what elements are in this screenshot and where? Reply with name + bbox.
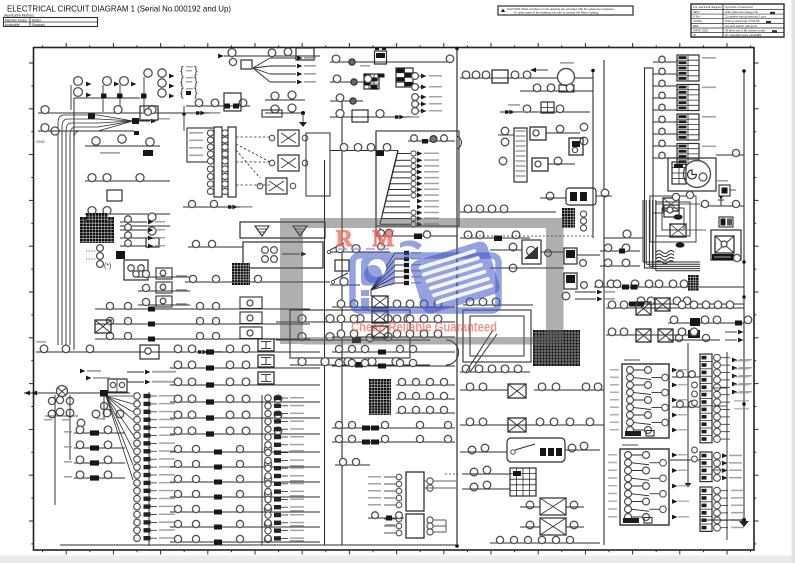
IC box 2 [406, 514, 424, 538]
row W1 [594, 286, 744, 288]
connector stack CD [700, 487, 712, 531]
row y282 [185, 281, 330, 283]
watermark document [409, 239, 502, 315]
labels CE [734, 360, 749, 362]
starter switch box [507, 438, 565, 462]
svg-text:For electrical diagram: For electrical diagram [693, 5, 722, 9]
rows BD [332, 427, 455, 429]
diode relay group [663, 198, 679, 211]
row y207 [183, 206, 240, 208]
svg-text:All lines are 0.85 unless note: All lines are 0.85 unless noted [725, 28, 765, 32]
X boxes BK [540, 498, 566, 515]
svg-text:ELECTRICAL CIRCUIT DIAGRAM 1 (: ELECTRICAL CIRCUIT DIAGRAM 1 (Serial No.… [7, 4, 231, 14]
connector block CN1 [80, 217, 114, 243]
right bus vertical [726, 352, 728, 540]
switch cluster 3 [148, 213, 156, 221]
fusible links [101, 94, 107, 99]
scan edge right [792, 0, 795, 563]
row Q [290, 364, 430, 366]
watermark emblem EL [361, 259, 395, 286]
connector V2a [719, 217, 733, 227]
connector group D [271, 92, 279, 100]
svg-text:W: standard color white/Blk: W: standard color white/Blk [725, 33, 762, 37]
svg-text:CODE: CODE [693, 19, 702, 23]
svg-text:Cheap Reliable Guaranteed: Cheap Reliable Guaranteed [351, 320, 497, 335]
svg-text:R M: R M [336, 226, 401, 251]
section divider wire 3 [375, 131, 377, 236]
terminal stack AF [261, 395, 263, 545]
svg-text:S.No: S.No [693, 15, 700, 19]
watermark logo frame [353, 256, 499, 311]
caution box [498, 6, 633, 15]
ignition hub [88, 113, 95, 119]
dashed row N [376, 235, 457, 237]
rows BJ [470, 468, 478, 476]
connector stack right [677, 55, 699, 81]
fuse box F-2 [620, 449, 669, 525]
speedometer gauge [668, 158, 716, 191]
rows BB [332, 351, 455, 353]
rows AE [170, 451, 320, 453]
svg-text:WIRE SIZE: WIRE SIZE [693, 28, 708, 32]
rows BC [396, 384, 455, 386]
row W4 [668, 322, 744, 324]
relay matrix P [290, 310, 410, 358]
connector block CN2 [364, 74, 379, 89]
fan to arrows [253, 58, 270, 68]
rows BA [332, 306, 455, 308]
stack side circles [692, 382, 698, 388]
row R2 [520, 90, 593, 92]
alternator terminal box [108, 379, 127, 392]
maze loop wires [650, 196, 696, 242]
rows AC [170, 351, 320, 353]
watermark grey ring [280, 218, 563, 228]
row Y1 [38, 112, 210, 114]
IC box 1 [406, 472, 424, 511]
wiper relay cluster [467, 235, 592, 237]
wire fan W2 [370, 290, 372, 296]
relay bank bars [187, 128, 214, 162]
component V1 [672, 193, 679, 200]
svg-text:Standard: Standard [32, 23, 45, 27]
section divider wire 4 [456, 48, 458, 547]
component S [569, 138, 583, 155]
svg-text:{: { [180, 87, 184, 99]
alternator cluster [24, 392, 130, 394]
row y106 [186, 105, 250, 107]
tick marks horizontal [42, 45, 44, 47]
rows AD [170, 401, 320, 403]
connector block CN4 [562, 208, 575, 228]
fuse box F-1 [622, 364, 669, 438]
fuse link wires [672, 376, 700, 378]
wire row y155 [716, 154, 744, 156]
connector group C [218, 54, 224, 59]
rows W2 [600, 250, 640, 252]
section divider wire 1 [324, 160, 326, 545]
row W3 [622, 303, 744, 305]
ladder bus [645, 68, 654, 268]
row Y2 [38, 130, 74, 132]
ladder rungs [653, 61, 677, 63]
svg-text:GND: GND [36, 139, 45, 144]
svg-text:MFD: MFD [693, 10, 700, 14]
relay bank relays [278, 130, 299, 146]
terminal circles B [158, 69, 166, 77]
resistor pack [566, 188, 596, 205]
component box B [124, 260, 148, 280]
row BG [460, 371, 530, 373]
flasher cluster [514, 128, 527, 182]
switch cluster 2 [85, 180, 170, 182]
ground wire CA2 [687, 343, 689, 483]
svg-text:Model: Model [32, 18, 41, 22]
wire fan W1 [330, 150, 398, 152]
rows left-mid [95, 308, 310, 310]
rows BE [335, 464, 370, 466]
row R3 [500, 111, 590, 113]
horn circuit row [460, 77, 593, 79]
connector group O [330, 251, 390, 253]
key switch cluster [146, 138, 154, 146]
terminal row J [412, 73, 419, 80]
terminal row A [120, 221, 147, 223]
svg-text:REF: REF [693, 24, 699, 28]
model table [4, 18, 98, 27]
connector group C2 [252, 55, 320, 57]
section divider wire 2 [341, 98, 343, 545]
loop row M [408, 140, 455, 142]
scan edge bottom [0, 556, 795, 563]
bus bend wires [642, 200, 644, 262]
svg-text:Ground switch rating No: Ground switch rating No [725, 24, 758, 28]
connector block CN3 [396, 68, 413, 87]
terminal stack Z [148, 392, 150, 546]
rows CA [606, 307, 744, 309]
connector stack CB [700, 354, 712, 443]
connector group K [330, 81, 372, 83]
terminal row U [575, 291, 596, 293]
rows AA [74, 432, 125, 434]
svg-text:To order parts of the drawing,: To order parts of the drawing, be sure t… [514, 11, 599, 15]
svg-text:(*): (*) [104, 263, 111, 270]
connector block CN5 [688, 275, 699, 291]
row BL [490, 542, 600, 544]
connector column A2 [97, 245, 104, 252]
svg-text:}: } [194, 87, 198, 99]
svg-text:Machine Model: Machine Model [5, 18, 27, 22]
rows T [460, 211, 556, 213]
loop wires BF [463, 310, 531, 362]
row BI [460, 424, 604, 426]
connector group A [74, 77, 83, 86]
connector stack CC [700, 452, 712, 482]
watermark dash underline [338, 248, 394, 250]
wire row y206 [700, 205, 744, 207]
row BH [534, 389, 604, 391]
revision table [691, 4, 784, 37]
battery component [330, 61, 452, 63]
row W5 [688, 330, 700, 338]
bottom bus wire [60, 544, 457, 546]
connector block CNW [232, 263, 250, 285]
vertical bus wire right [592, 70, 594, 238]
connector block CN8 [510, 468, 536, 496]
ground component box [240, 222, 325, 238]
left horizontal wire [42, 130, 134, 132]
relay row L [330, 116, 410, 118]
left inner wire [73, 98, 75, 350]
horn relay component [711, 230, 741, 260]
component V1b [719, 185, 730, 196]
section divider wire 5 [603, 60, 605, 545]
connector block CN6 [369, 379, 391, 415]
svg-text:Symbols of electrical: Symbols of electrical [725, 5, 753, 9]
switch rows B2 [138, 276, 190, 278]
alternator fan [106, 395, 133, 397]
fan enclosure box [376, 131, 459, 226]
svg-text:with reference design No: with reference design No [725, 10, 759, 14]
svg-text:W: W [693, 33, 696, 37]
terminal arrows X [725, 331, 737, 333]
left bus wires [57, 123, 59, 345]
svg-text:Wiring schematic 0.5/0.85: Wiring schematic 0.5/0.85 [725, 19, 760, 23]
long wire right column [743, 71, 745, 520]
svg-text:Applicable: Applicable [5, 23, 20, 27]
bundle to bus [58, 115, 133, 123]
svg-text:Complete wiring harness 1 pcs: Complete wiring harness 1 pcs [725, 15, 767, 19]
row y352 [36, 351, 255, 353]
tick marks vertical [29, 62, 34, 64]
resistor wiggles [656, 251, 674, 254]
connector block CN7 [533, 330, 580, 366]
